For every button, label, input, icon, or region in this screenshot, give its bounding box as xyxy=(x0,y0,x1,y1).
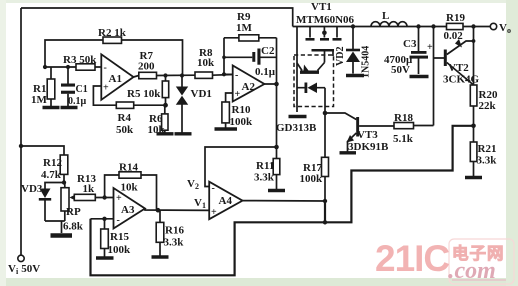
wire: output divider vertical xyxy=(471,24,476,176)
svg-text:C1: C1 xyxy=(76,84,88,95)
wire: A1 output xyxy=(134,75,233,78)
svg-text:0.1μ: 0.1μ xyxy=(68,96,87,107)
phototransistor of GD313B xyxy=(297,63,325,74)
svg-text:4.7k: 4.7k xyxy=(41,169,62,181)
svg-text:C2: C2 xyxy=(261,45,275,57)
ground R16 xyxy=(152,255,169,258)
svg-text:3.3k: 3.3k xyxy=(477,155,498,167)
svg-text:R10: R10 xyxy=(232,104,251,116)
ground C1 xyxy=(61,106,78,109)
svg-text:+: + xyxy=(211,207,217,218)
svg-text:C3: C3 xyxy=(403,38,417,50)
diode VD2 xyxy=(335,24,372,78)
resistor R18 xyxy=(393,112,434,145)
op-amp A2 xyxy=(233,66,265,102)
svg-text:-: - xyxy=(104,63,107,74)
resistor R3 xyxy=(63,54,97,70)
wire: A2 feedback branch vertical xyxy=(222,38,233,77)
resistor R12 xyxy=(41,155,68,183)
LED of GD313B xyxy=(297,83,327,116)
svg-text:R16: R16 xyxy=(165,225,184,237)
svg-text:A3: A3 xyxy=(121,204,135,216)
resistor R2 xyxy=(98,27,127,43)
svg-text:-: - xyxy=(117,215,120,226)
ground C3 xyxy=(410,75,429,78)
svg-text:VT1: VT1 xyxy=(311,1,332,13)
svg-text:50V: 50V xyxy=(391,64,410,76)
svg-text:0.02: 0.02 xyxy=(444,30,464,42)
svg-text:+: + xyxy=(116,193,122,204)
svg-text:+: + xyxy=(427,42,433,53)
ground R15 xyxy=(96,256,114,259)
op-amp A1 xyxy=(101,54,133,100)
svg-text:50k: 50k xyxy=(116,124,134,136)
svg-text:R2 1k: R2 1k xyxy=(98,27,127,39)
transistor VT3 xyxy=(325,113,394,153)
svg-text:R14: R14 xyxy=(119,162,138,174)
watermark dianziwang xyxy=(452,243,505,263)
resistor R9 xyxy=(224,11,277,41)
svg-text:GD313B: GD313B xyxy=(276,122,317,134)
wire: V2 line from A2 output xyxy=(205,147,277,187)
capacitor C3 xyxy=(384,24,433,76)
ground VD2 xyxy=(346,74,364,77)
ground R1 xyxy=(43,106,60,109)
zener VD1 xyxy=(176,73,212,133)
svg-text:RP: RP xyxy=(66,206,81,218)
optocoupler GD313B dashed box xyxy=(276,55,334,134)
svg-text:MTM60N06: MTM60N06 xyxy=(296,14,355,26)
ground R6 xyxy=(157,132,174,135)
resistor R16 xyxy=(156,210,184,255)
svg-text:1k: 1k xyxy=(83,183,96,195)
svg-text:1M: 1M xyxy=(31,94,48,106)
capacitor C2 xyxy=(224,45,277,78)
label V1 xyxy=(194,197,206,210)
svg-text:Vi50V: Vi50V xyxy=(8,263,40,276)
svg-text:R21: R21 xyxy=(478,143,497,155)
svg-text:5.1k: 5.1k xyxy=(393,133,414,145)
resistor R10 xyxy=(222,93,253,128)
inductor L xyxy=(371,10,407,27)
svg-text:3.3k: 3.3k xyxy=(254,172,275,184)
resistor R14 xyxy=(102,162,156,211)
svg-text:L: L xyxy=(382,10,389,22)
svg-text:R12: R12 xyxy=(43,157,62,169)
wire: R2 top line xyxy=(45,40,183,76)
watermark 21IC xyxy=(375,238,449,279)
resistor R21 xyxy=(470,142,497,167)
svg-text:22k: 22k xyxy=(479,100,497,112)
svg-text:R3 50k: R3 50k xyxy=(63,54,97,66)
resistor R11 xyxy=(254,147,280,189)
resistor R6 xyxy=(148,105,169,136)
svg-text:100k: 100k xyxy=(230,116,254,128)
svg-text:R11: R11 xyxy=(256,160,274,172)
op-amp A3 xyxy=(114,188,146,229)
svg-text:1M: 1M xyxy=(236,22,253,34)
svg-text:VD2: VD2 xyxy=(335,47,346,66)
svg-text:R18: R18 xyxy=(394,112,413,124)
svg-text:10k: 10k xyxy=(121,182,139,194)
wire: A3 output xyxy=(145,208,209,213)
resistor R17 xyxy=(300,113,329,201)
svg-text:0.1μ: 0.1μ xyxy=(255,66,276,78)
svg-text:100k: 100k xyxy=(108,244,132,256)
resistor R5 xyxy=(127,76,169,106)
wire: A4 output xyxy=(243,199,328,203)
svg-text:R15: R15 xyxy=(110,231,129,243)
svg-text:21IC: 21IC xyxy=(375,238,449,279)
wire: VD3/RP bottom to ground xyxy=(45,221,65,233)
node A1 in xyxy=(43,65,70,69)
svg-text:3.3k: 3.3k xyxy=(164,237,185,249)
svg-text:10k: 10k xyxy=(197,57,215,69)
left bias chain: wire R12 tap xyxy=(19,144,64,155)
ground opto xyxy=(289,115,307,118)
wire: Vi rail left vertical xyxy=(20,8,22,255)
label VT1 xyxy=(296,1,355,26)
transistor VT2 xyxy=(443,39,480,86)
wire: main top rail y=26.5 xyxy=(293,26,490,28)
svg-text:-: - xyxy=(212,183,215,194)
svg-text:A4: A4 xyxy=(219,195,233,207)
svg-text:1N5404: 1N5404 xyxy=(361,46,372,78)
svg-text:6.8k: 6.8k xyxy=(63,221,84,233)
ground RP xyxy=(51,233,73,238)
wire: VT2 base line from rail xyxy=(431,24,444,125)
ground R11 xyxy=(268,189,285,192)
wire: A3 minus input xyxy=(91,217,114,229)
svg-text:VT3: VT3 xyxy=(357,129,378,141)
wire: A4 output down to feedback line xyxy=(323,201,327,225)
ground VD1 xyxy=(175,132,192,135)
potentiometer RP xyxy=(61,183,84,233)
wire: gate line left xyxy=(296,27,298,113)
capacitor C1 xyxy=(61,67,88,107)
svg-text:R19: R19 xyxy=(446,12,465,24)
resistor R7 xyxy=(138,50,157,79)
svg-text:200: 200 xyxy=(138,61,155,73)
resistor R13 xyxy=(74,173,113,201)
wire: A2 output vertical xyxy=(264,38,278,150)
resistor R8 xyxy=(195,47,215,78)
node A1 output xyxy=(163,73,168,107)
svg-text:R5 10k: R5 10k xyxy=(127,88,161,100)
svg-text:100k: 100k xyxy=(300,173,324,185)
svg-text:A1: A1 xyxy=(109,73,122,85)
wire: A1 plus input feedback xyxy=(93,86,165,105)
zener VD3 xyxy=(21,183,64,222)
watermark .com xyxy=(448,255,506,284)
watermark logo box xyxy=(449,239,514,284)
svg-text:VD3: VD3 xyxy=(21,183,43,195)
svg-text:-: - xyxy=(235,70,238,81)
resistor R4 xyxy=(116,102,134,136)
mosfet VT1 xyxy=(306,27,342,63)
svg-text:R4: R4 xyxy=(118,112,132,124)
resistor R19 xyxy=(444,12,466,42)
node R12 bottom xyxy=(62,180,66,184)
svg-text:A2: A2 xyxy=(242,81,256,93)
ground R21 xyxy=(465,176,482,179)
ground R10 xyxy=(215,127,238,130)
resistor R15 xyxy=(101,229,131,257)
wire: top line to VT1 xyxy=(21,8,293,27)
terminal Vi xyxy=(8,255,40,276)
ground VT3 xyxy=(340,151,357,154)
svg-text:+: + xyxy=(235,89,241,100)
label V2 xyxy=(187,178,199,191)
svg-text:VD1: VD1 xyxy=(191,88,212,100)
resistor R1 xyxy=(31,67,55,107)
wire: feedback path from divider to A3 xyxy=(91,126,474,275)
terminal Vo xyxy=(490,22,511,35)
svg-text:VT2: VT2 xyxy=(448,62,469,74)
op-amp A4 xyxy=(209,182,242,220)
wire: A1 minus input line xyxy=(45,66,101,68)
resistor R20 xyxy=(470,85,498,112)
